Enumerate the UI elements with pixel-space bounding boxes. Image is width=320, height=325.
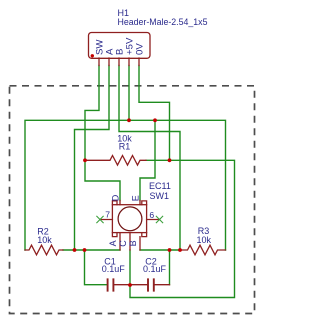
- svg-text:0.1uF: 0.1uF: [102, 264, 126, 274]
- svg-text:6: 6: [149, 210, 154, 220]
- svg-text:0V: 0V: [135, 43, 146, 55]
- svg-text:B: B: [128, 240, 138, 246]
- svg-text:10k: 10k: [37, 235, 52, 245]
- svg-text:R1: R1: [119, 142, 131, 152]
- svg-text:C: C: [118, 240, 128, 247]
- svg-text:7: 7: [105, 210, 110, 220]
- svg-text:EC11: EC11: [149, 181, 171, 191]
- svg-text:SW1: SW1: [150, 191, 170, 201]
- svg-text:Header-Male-2.54_1x5: Header-Male-2.54_1x5: [118, 17, 208, 27]
- svg-text:0.1uF: 0.1uF: [143, 264, 167, 274]
- svg-text:10k: 10k: [197, 235, 212, 245]
- svg-text:A: A: [108, 240, 118, 246]
- svg-text:D: D: [111, 194, 121, 201]
- svg-text:E: E: [131, 195, 141, 201]
